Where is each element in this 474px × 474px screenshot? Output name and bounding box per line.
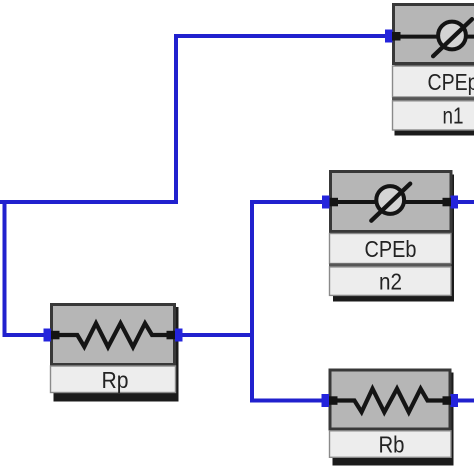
node: Rb left port (blue) — [322, 394, 330, 407]
label row: n2 cell — [330, 267, 452, 296]
label row: CPEb name cell — [330, 234, 452, 264]
node: Rp right port (blue) — [175, 329, 183, 342]
wire: CPEp internal lead right — [466, 35, 474, 39]
op CPEb: drop shadow — [333, 175, 454, 302]
pin: CPEb left pin pad (black) — [330, 198, 339, 207]
node: CPEb right port (blue) — [451, 196, 459, 209]
op CPEp: element body box — [394, 5, 474, 64]
pin: Rp right pin pad (black) — [167, 331, 176, 340]
node: CPEb left port (blue) — [322, 196, 330, 209]
node: CPEp left port (blue) — [385, 30, 393, 43]
node: Rb right port (blue) — [451, 394, 459, 407]
op CPEb: element body box — [331, 172, 452, 232]
resistor Rb: drop shadow — [333, 373, 454, 466]
wire: left vertical drop to Rp — [5, 200, 45, 335]
pin: Rb left pin pad (black) — [329, 396, 338, 405]
symbol: Rb resistor zigzag — [334, 389, 448, 413]
pin: CPEb right pin pad (black) — [443, 198, 452, 207]
wire: middle vertical bus linking CPEb and Rb — [252, 202, 323, 401]
wire: Rb right output — [457, 399, 474, 403]
wire: CPEp internal lead left — [397, 35, 439, 39]
symbol: CPEp slash — [433, 19, 472, 56]
pin: Rb right pin pad (black) — [443, 396, 452, 405]
node: Rp left port (blue) — [44, 329, 52, 342]
label row: n1 cell — [393, 101, 474, 130]
label row: Rb name cell — [330, 431, 452, 458]
wire: Rp right terminal to middle vertical bus — [182, 333, 254, 337]
op CPEp: drop shadow — [395, 8, 474, 136]
svg-text:n1: n1 — [443, 103, 464, 129]
separator under CPEp name cell — [392, 97, 474, 101]
separator under CPEb name cell — [329, 264, 452, 267]
pin: CPEp left pin pad (black) — [392, 32, 401, 41]
wire: CPEb internal lead right — [404, 200, 448, 204]
symbol: CPEp phase-element circle — [438, 22, 466, 50]
label row: CPEp name cell — [393, 66, 474, 97]
symbol: Rp resistor zigzag — [55, 323, 171, 347]
svg-text:CPEb: CPEb — [365, 236, 417, 262]
wire: CPEb right output — [457, 200, 474, 204]
svg-text:n2: n2 — [379, 269, 402, 295]
resistor Rp: drop shadow — [54, 307, 179, 402]
resistor Rp: element body box — [52, 305, 175, 365]
resistor Rb: element body box — [330, 370, 450, 429]
symbol: CPEb slash — [371, 184, 410, 221]
svg-text:Rb: Rb — [379, 432, 405, 458]
svg-text:Rp: Rp — [102, 367, 129, 393]
wire: CPEb internal lead left — [334, 200, 377, 204]
label row: Rp name cell — [51, 366, 176, 393]
pin: Rp left pin pad (black) — [51, 331, 60, 340]
svg-text:CPEp: CPEp — [428, 69, 474, 95]
wire: left input net at y=202 rising to CPEp — [0, 36, 385, 202]
symbol: CPEb phase-element circle — [376, 186, 404, 214]
